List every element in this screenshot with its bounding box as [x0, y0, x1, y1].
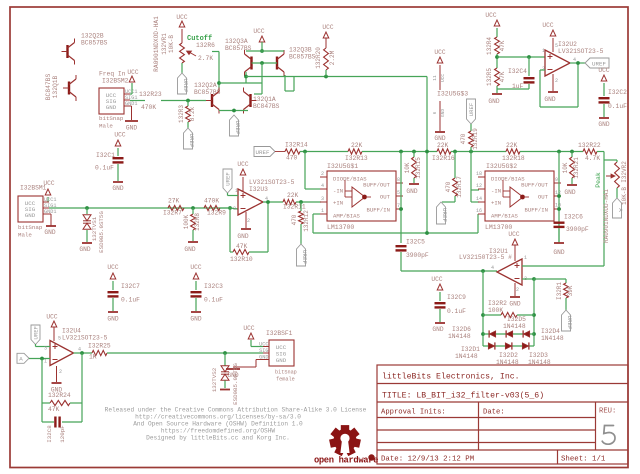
svg-text:22K: 22K	[287, 192, 299, 199]
svg-text:AMP/BIAS: AMP/BIAS	[491, 213, 518, 220]
svg-text:I32C4: I32C4	[508, 68, 527, 75]
svg-text:I32R25: I32R25	[88, 343, 111, 350]
svg-text:3: 3	[233, 206, 236, 212]
svg-text:UREF: UREF	[441, 208, 448, 222]
svg-text:Date: 12/9/13 2:12 PM: Date: 12/9/13 2:12 PM	[381, 456, 474, 464]
svg-text:I32U2: I32U2	[558, 41, 577, 48]
svg-text:132R17: 132R17	[456, 176, 463, 198]
svg-text:Date:: Date:	[483, 409, 505, 417]
svg-text:8.2k: 8.2k	[189, 106, 196, 121]
svg-text:Sheet: 1/1: Sheet: 1/1	[561, 456, 606, 464]
svg-text:1N4148: 1N4148	[528, 359, 551, 366]
svg-text:UCC: UCC	[114, 132, 125, 139]
svg-text:-IN: -IN	[491, 188, 501, 195]
svg-text:132R9: 132R9	[207, 210, 226, 217]
svg-text:BUFF/OUT: BUFF/OUT	[363, 182, 390, 189]
svg-text:1: 1	[524, 255, 527, 261]
svg-text:UCC: UCC	[542, 22, 553, 29]
svg-text:5: 5	[397, 190, 400, 196]
svg-text:4: 4	[573, 57, 576, 63]
svg-text:+IN: +IN	[491, 200, 501, 207]
svg-text:ESD9B5.0ST5G: ESD9B5.0ST5G	[98, 211, 105, 253]
svg-text:I32C5: I32C5	[406, 239, 425, 246]
svg-text:4.7K: 4.7K	[585, 155, 600, 162]
svg-text:DIODE/BIAS: DIODE/BIAS	[491, 176, 525, 183]
svg-text:1: 1	[542, 48, 545, 54]
svg-text:3: 3	[321, 196, 324, 202]
svg-text:10K-B: 10K-B	[168, 35, 175, 53]
svg-text:1N4148: 1N4148	[448, 333, 471, 340]
svg-text:I32D2: I32D2	[499, 352, 518, 359]
svg-text:GND: GND	[184, 246, 195, 253]
svg-text:10K-B: 10K-B	[621, 187, 628, 205]
svg-text:132Q3A: 132Q3A	[225, 38, 248, 45]
svg-text:GND: GND	[509, 301, 520, 308]
svg-text:4: 4	[321, 183, 324, 189]
svg-text:GND: GND	[79, 246, 90, 253]
svg-text:39K: 39K	[567, 285, 574, 296]
svg-text:UCC: UCC	[237, 161, 248, 168]
svg-text:2: 2	[59, 369, 62, 375]
svg-text:UCC: UCC	[259, 342, 268, 348]
svg-text:GND: GND	[276, 357, 287, 364]
svg-text:bitSnap: bitSnap	[275, 370, 297, 376]
svg-text:+IN: +IN	[333, 200, 343, 207]
svg-text:132TVS1: 132TVS1	[91, 216, 98, 241]
svg-text:I32U5G$2: I32U5G$2	[486, 163, 517, 170]
svg-text:UCC: UCC	[176, 14, 187, 21]
svg-text:LM13700: LM13700	[485, 224, 512, 231]
svg-text:120pF: 120pF	[59, 425, 66, 443]
svg-text:UCC: UCC	[43, 180, 54, 187]
svg-text:I32U5G$1: I32U5G$1	[327, 163, 358, 170]
svg-text:47K: 47K	[236, 243, 248, 250]
svg-text:I32R14: I32R14	[285, 142, 308, 149]
svg-text:I32C7: I32C7	[121, 283, 140, 290]
svg-text:132R12: 132R12	[303, 210, 310, 232]
svg-text:Male: Male	[99, 123, 113, 130]
svg-text:BC857BS: BC857BS	[289, 54, 316, 61]
svg-text:bitSnap: bitSnap	[18, 224, 43, 231]
svg-text:LV321SOT23-5: LV321SOT23-5	[558, 48, 604, 55]
svg-text:UCC: UCC	[322, 24, 333, 31]
svg-text:1: 1	[235, 188, 238, 194]
svg-text:22K: 22K	[351, 142, 363, 149]
svg-text:A: A	[19, 356, 23, 363]
svg-text:BC847BS: BC847BS	[45, 74, 52, 101]
svg-text:I32D4: I32D4	[541, 328, 560, 335]
svg-text:GND: GND	[488, 98, 499, 105]
svg-text:I32C1: I32C1	[96, 152, 115, 159]
svg-text:LV32150T23-5 #: LV32150T23-5 #	[459, 254, 512, 261]
svg-text:I32D3: I32D3	[529, 352, 548, 359]
svg-text:132R8: 132R8	[194, 213, 201, 231]
svg-text:ESD9B5.0ST5G: ESD9B5.0ST5G	[232, 363, 239, 405]
svg-text:132R3: 132R3	[178, 105, 185, 123]
svg-text:http://creativecommons.org/lic: http://creativecommons.org/licenses/by-s…	[135, 414, 301, 421]
svg-text:470K: 470K	[141, 104, 156, 111]
svg-text:1N4148: 1N4148	[455, 353, 478, 360]
svg-text:GND: GND	[564, 189, 575, 196]
svg-text:1uF: 1uF	[512, 83, 524, 90]
svg-text:I32R1: I32R1	[556, 282, 563, 300]
svg-text:GND: GND	[432, 326, 443, 333]
svg-text:0.1uF: 0.1uF	[121, 297, 140, 304]
svg-text:18: 18	[476, 171, 482, 177]
svg-text:GND: GND	[112, 185, 123, 192]
svg-text:UCC: UCC	[431, 276, 442, 283]
svg-text:GND: GND	[126, 125, 137, 132]
svg-text:bitSnap: bitSnap	[99, 115, 124, 122]
svg-text:I32BSF1: I32BSF1	[266, 330, 293, 337]
svg-text:UCC: UCC	[190, 264, 201, 271]
svg-text:UCC: UCC	[508, 231, 519, 238]
svg-text:GND: GND	[553, 249, 564, 256]
svg-text:littleBits Electronics, Inc.: littleBits Electronics, Inc.	[382, 372, 520, 382]
svg-text:LV321SOT23-5: LV321SOT23-5	[249, 179, 295, 186]
svg-text:Freq In: Freq In	[99, 71, 126, 78]
svg-text:UREF: UREF	[182, 79, 189, 93]
svg-text:UCC: UCC	[485, 12, 496, 19]
svg-text:8: 8	[397, 177, 400, 183]
svg-text:132R19: 132R19	[472, 128, 479, 150]
svg-text:open hardware: open hardware	[314, 455, 378, 465]
svg-text:GND: GND	[190, 316, 201, 323]
svg-text:UCC: UCC	[46, 314, 57, 321]
svg-text:I32R13: I32R13	[345, 155, 368, 162]
svg-text:LV321SOT23-5: LV321SOT23-5	[62, 335, 108, 342]
svg-text:GND: GND	[406, 188, 417, 195]
svg-text:GND: GND	[44, 229, 55, 236]
svg-text:Approval Inits:: Approval Inits:	[381, 409, 446, 417]
svg-text:1N4148: 1N4148	[541, 335, 564, 342]
svg-text:3: 3	[44, 346, 47, 352]
svg-text:UCC: UCC	[440, 74, 446, 82]
svg-text:SIG: SIG	[259, 348, 268, 354]
svg-text:5: 5	[555, 43, 558, 49]
svg-text:GND: GND	[237, 233, 248, 240]
svg-text:470K: 470K	[204, 198, 219, 205]
svg-text:132R15: 132R15	[415, 157, 422, 179]
svg-text:1K: 1K	[89, 354, 97, 361]
svg-text:132Q2A: 132Q2A	[194, 82, 217, 89]
svg-text:BUFF/OUT: BUFF/OUT	[521, 182, 548, 189]
svg-text:9: 9	[555, 177, 558, 183]
svg-text:132R4: 132R4	[486, 37, 493, 55]
svg-text:I32D6: I32D6	[452, 326, 471, 333]
svg-text:2: 2	[555, 78, 558, 84]
svg-text:14: 14	[476, 196, 482, 202]
svg-text:UCC: UCC	[253, 28, 264, 35]
svg-text:10K: 10K	[562, 162, 569, 173]
svg-text:1N4148: 1N4148	[503, 323, 526, 330]
svg-text:132R18: 132R18	[502, 155, 525, 162]
svg-text:0.1uF: 0.1uF	[95, 165, 114, 172]
svg-text:47K: 47K	[499, 71, 506, 82]
svg-text:BUFF/IN: BUFF/IN	[525, 207, 549, 214]
svg-text:5: 5	[58, 336, 61, 342]
svg-text:132R6: 132R6	[196, 42, 215, 49]
svg-text:470: 470	[291, 214, 298, 225]
svg-text:I32R16: I32R16	[432, 155, 455, 162]
svg-text:132R21: 132R21	[573, 157, 580, 179]
svg-text:132Q3B: 132Q3B	[289, 47, 312, 54]
svg-text:-IN: -IN	[333, 188, 343, 195]
svg-text:I32C2: I32C2	[608, 89, 627, 96]
svg-text:Male: Male	[18, 232, 32, 239]
svg-text:UCC: UCC	[107, 264, 118, 271]
svg-text:UREF: UREF	[566, 316, 573, 330]
svg-text:3900pF: 3900pF	[406, 252, 429, 259]
svg-text:I32C8: I32C8	[46, 425, 53, 443]
svg-text:BC847BS: BC847BS	[253, 103, 280, 110]
svg-text:132R20: 132R20	[315, 47, 322, 69]
svg-text:GND: GND	[107, 316, 118, 323]
svg-text:RA0901NDXOD-HA1: RA0901NDXOD-HA1	[603, 189, 610, 243]
svg-text:132R24: 132R24	[48, 392, 71, 399]
svg-text:UREF: UREF	[33, 326, 40, 339]
svg-text:0.1uF: 0.1uF	[447, 308, 466, 315]
svg-text:Designed by littleBits.cc and: Designed by littleBits.cc and Korg Inc.	[146, 435, 290, 442]
svg-text:47K: 47K	[499, 40, 506, 51]
svg-text:OUT: OUT	[538, 194, 549, 201]
svg-text:0.1uF: 0.1uF	[608, 103, 627, 110]
svg-text:UREF: UREF	[468, 103, 475, 116]
svg-text:GND: GND	[25, 212, 36, 219]
svg-text:2.7K: 2.7K	[198, 55, 213, 62]
svg-text:4: 4	[78, 347, 81, 353]
svg-text:REU:: REU:	[599, 408, 616, 416]
svg-text:RA0901NDXOD-HA1: RA0901NDXOD-HA1	[153, 16, 160, 72]
svg-text:female: female	[276, 377, 295, 383]
svg-text:3: 3	[542, 66, 545, 72]
svg-text:132R10: 132R10	[230, 256, 253, 263]
svg-text:470: 470	[445, 181, 452, 192]
svg-text:2: 2	[321, 171, 324, 177]
svg-text:1N4148: 1N4148	[496, 359, 519, 366]
svg-text:3900pF: 3900pF	[566, 226, 589, 233]
svg-text:47K: 47K	[48, 406, 60, 413]
svg-text:132R5: 132R5	[486, 68, 493, 86]
svg-text:I32C6: I32C6	[564, 214, 583, 221]
svg-text:GND: GND	[106, 104, 117, 111]
svg-text:I32U4: I32U4	[62, 328, 81, 335]
svg-text:GND: GND	[598, 121, 609, 128]
svg-text:LM13700: LM13700	[327, 224, 354, 231]
svg-text:10K: 10K	[404, 162, 411, 173]
svg-text:2: 2	[247, 218, 250, 224]
svg-text:UCC: UCC	[127, 69, 138, 76]
svg-text:BC857BS: BC857BS	[81, 40, 108, 47]
svg-text:132R23: 132R23	[139, 91, 162, 98]
svg-text:I32C9: I32C9	[447, 294, 466, 301]
svg-text:A: A	[617, 208, 624, 212]
svg-text:I32R11: I32R11	[283, 204, 306, 211]
svg-text:UCC: UCC	[243, 325, 254, 332]
svg-text:And Open Source Hardware (OSHW: And Open Source Hardware (OSHW) Definiti…	[133, 421, 303, 428]
svg-text:16: 16	[476, 208, 482, 214]
svg-text:I32U3: I32U3	[249, 186, 268, 193]
svg-text:I32VR2: I32VR2	[621, 161, 628, 183]
svg-text:1: 1	[321, 208, 324, 214]
svg-text:I32BSM2: I32BSM2	[102, 78, 129, 85]
svg-text:1: 1	[44, 359, 47, 365]
svg-text:27K: 27K	[168, 198, 180, 205]
svg-text:Peak: Peak	[595, 172, 602, 188]
svg-text:470: 470	[286, 155, 298, 162]
svg-text:OUT: OUT	[380, 194, 391, 201]
svg-text:132VR1: 132VR1	[161, 33, 168, 55]
svg-text:UCC: UCC	[598, 67, 609, 74]
svg-text:UREF: UREF	[225, 172, 232, 185]
svg-text:https://freedomdefined.org/OSH: https://freedomdefined.org/OSHW	[161, 428, 276, 435]
svg-text:132R22: 132R22	[578, 142, 601, 149]
svg-text:DIODE/BIAS: DIODE/BIAS	[333, 176, 367, 183]
svg-text:UCC: UCC	[434, 49, 445, 56]
svg-text:BUFF/IN: BUFF/IN	[367, 207, 391, 214]
svg-text:I32C3: I32C3	[204, 283, 223, 290]
svg-text:I32D1: I32D1	[461, 346, 480, 353]
svg-text:GND: GND	[440, 109, 446, 117]
svg-text:I32D5: I32D5	[507, 316, 526, 323]
svg-text:0.1uF: 0.1uF	[204, 297, 223, 304]
svg-text:2: 2	[516, 287, 519, 293]
svg-text:Released under the Creative Co: Released under the Creative Commons Attr…	[105, 407, 367, 414]
svg-text:BC857BS: BC857BS	[194, 89, 221, 96]
svg-text:I32R7: I32R7	[163, 210, 182, 217]
svg-text:UREF: UREF	[188, 134, 195, 148]
svg-text:132Q1A: 132Q1A	[253, 96, 276, 103]
svg-text:11: 11	[432, 75, 438, 81]
svg-text:132Q1B: 132Q1B	[52, 75, 59, 98]
svg-text:UREF: UREF	[301, 250, 308, 264]
svg-text:100K: 100K	[488, 307, 503, 314]
svg-text:UREF: UREF	[256, 149, 270, 156]
svg-text:I32R2: I32R2	[488, 300, 507, 307]
svg-text:UREF: UREF	[234, 121, 241, 135]
svg-text:132TVS2: 132TVS2	[211, 367, 218, 392]
svg-text:12: 12	[476, 183, 482, 189]
svg-text:4: 4	[491, 265, 494, 271]
svg-text:GND: GND	[434, 135, 445, 142]
svg-text:6: 6	[432, 111, 438, 114]
svg-text:132Q2B: 132Q2B	[81, 33, 104, 40]
svg-text:I32U5G$3: I32U5G$3	[437, 91, 468, 98]
svg-text:100K: 100K	[183, 214, 190, 229]
svg-text:2.2M: 2.2M	[329, 50, 336, 65]
svg-text:AMP/BIAS: AMP/BIAS	[333, 213, 360, 220]
svg-text:TITLE: LB_BIT_i32_filter-v03(5: TITLE: LB_BIT_i32_filter-v03(5_6)	[382, 391, 544, 401]
svg-text:GND: GND	[544, 96, 555, 103]
svg-text:470: 470	[460, 133, 467, 144]
